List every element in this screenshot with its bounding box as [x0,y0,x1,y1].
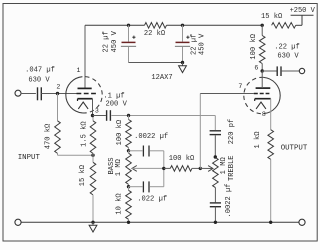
svg-text:22 µf: 22 µf [103,31,111,52]
svg-text:OUTPUT: OUTPUT [281,145,308,153]
svg-text:7: 7 [238,83,242,90]
svg-text:TREBLE: TREBLE [228,155,236,181]
svg-text:450 V: 450 V [111,30,119,52]
svg-text:2: 2 [56,83,60,90]
svg-text:1 kΩ: 1 kΩ [254,131,262,149]
svg-text:1 MΩ: 1 MΩ [115,158,123,176]
svg-text:+250 V: +250 V [290,7,316,15]
svg-text:22 µf: 22 µf [190,34,198,55]
svg-text:6: 6 [254,65,258,72]
svg-text:100 kΩ: 100 kΩ [169,155,195,163]
svg-text:1.5 kΩ: 1.5 kΩ [81,121,89,147]
svg-text:15 kΩ: 15 kΩ [79,164,87,186]
svg-text:3: 3 [95,107,99,114]
svg-text:.022 µf: .022 µf [137,195,167,203]
svg-text:.047 µf: .047 µf [25,67,55,75]
svg-text:630 V: 630 V [28,77,50,85]
svg-text:15 kΩ: 15 kΩ [261,13,283,21]
svg-text:10 kΩ: 10 kΩ [116,193,124,215]
svg-text:8: 8 [262,111,266,118]
svg-text:22 kΩ: 22 kΩ [144,30,166,38]
svg-text:.0022 µf: .0022 µf [225,183,233,217]
svg-text:12AX7: 12AX7 [151,74,172,82]
svg-text:470 kΩ: 470 kΩ [44,123,52,149]
svg-text:100 kΩ: 100 kΩ [250,33,258,59]
svg-text:100 kΩ: 100 kΩ [116,119,124,145]
svg-text:INPUT: INPUT [18,154,41,162]
svg-text:200 V: 200 V [106,101,128,109]
svg-text:.0022 µf: .0022 µf [134,133,168,141]
svg-text:1 MΩ: 1 MΩ [220,157,228,175]
svg-text:1: 1 [77,67,81,74]
svg-text:.22 µf: .22 µf [274,44,300,52]
svg-text:.1 µf: .1 µf [103,92,124,100]
svg-text:220 pf: 220 pf [228,119,236,145]
svg-text:630 V: 630 V [277,52,299,60]
svg-text:450 V: 450 V [199,33,207,55]
